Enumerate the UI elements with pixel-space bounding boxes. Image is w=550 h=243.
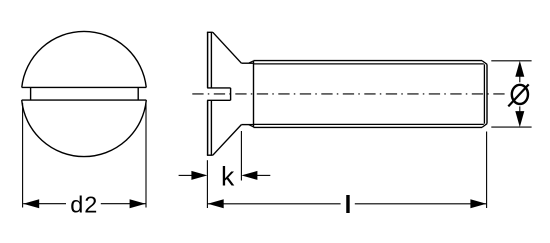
svg-text:l: l — [345, 191, 352, 219]
svg-text:d2: d2 — [70, 191, 98, 217]
svg-text:k: k — [221, 161, 235, 191]
